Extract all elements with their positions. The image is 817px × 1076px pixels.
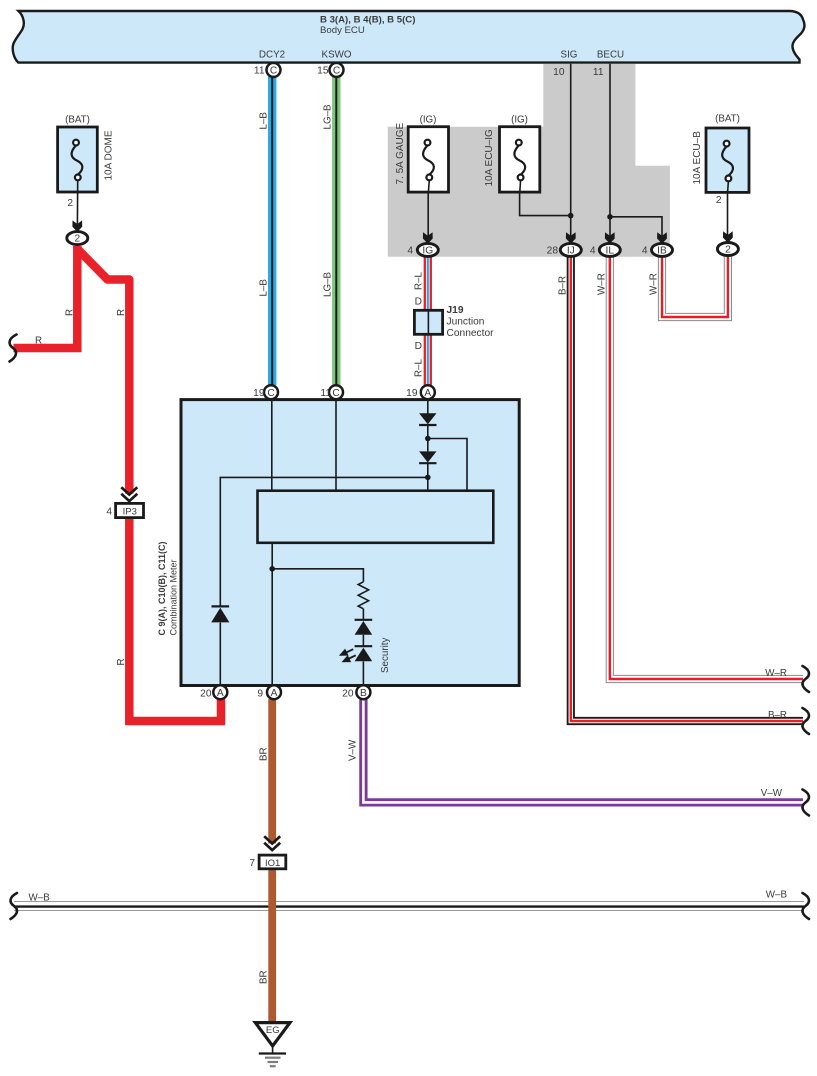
svg-text:IJ: IJ bbox=[567, 246, 575, 257]
svg-text:W–R: W–R bbox=[649, 273, 660, 295]
svg-text:20: 20 bbox=[200, 688, 212, 699]
svg-text:B 3(A), B 4(B), B 5(C): B 3(A), B 4(B), B 5(C) bbox=[320, 14, 415, 25]
svg-text:2: 2 bbox=[725, 245, 731, 256]
svg-text:2: 2 bbox=[74, 234, 80, 245]
svg-text:10A ECU–IG: 10A ECU–IG bbox=[484, 129, 495, 186]
svg-text:BR: BR bbox=[259, 970, 270, 984]
svg-text:(BAT): (BAT) bbox=[715, 114, 740, 125]
svg-text:IL: IL bbox=[606, 246, 615, 257]
svg-text:7. 5A GAUGE: 7. 5A GAUGE bbox=[395, 122, 406, 184]
svg-text:C: C bbox=[332, 388, 339, 399]
svg-text:BR: BR bbox=[259, 747, 270, 761]
svg-text:L–B: L–B bbox=[259, 112, 270, 130]
svg-text:Junction: Junction bbox=[447, 317, 485, 328]
svg-text:Body ECU: Body ECU bbox=[320, 25, 365, 36]
svg-text:10A DOME: 10A DOME bbox=[104, 130, 115, 180]
svg-text:C: C bbox=[267, 388, 274, 399]
svg-text:4: 4 bbox=[642, 246, 648, 257]
svg-text:A: A bbox=[217, 688, 224, 699]
svg-text:15: 15 bbox=[317, 66, 329, 77]
svg-text:4: 4 bbox=[106, 506, 112, 517]
svg-text:EG: EG bbox=[266, 1025, 280, 1036]
svg-text:10A ECU–B: 10A ECU–B bbox=[692, 131, 703, 185]
svg-text:D: D bbox=[415, 297, 422, 308]
svg-text:C: C bbox=[333, 66, 340, 77]
svg-text:2: 2 bbox=[67, 198, 73, 209]
svg-text:SIG: SIG bbox=[561, 50, 578, 61]
svg-text:2: 2 bbox=[716, 195, 722, 206]
svg-text:(IG): (IG) bbox=[511, 115, 528, 126]
svg-text:R: R bbox=[116, 658, 127, 665]
svg-text:11: 11 bbox=[254, 66, 265, 77]
svg-text:19: 19 bbox=[253, 388, 265, 399]
svg-text:IG: IG bbox=[422, 246, 433, 257]
svg-text:(BAT): (BAT) bbox=[65, 115, 90, 126]
svg-text:R–L: R–L bbox=[414, 271, 425, 290]
svg-text:20: 20 bbox=[342, 688, 354, 699]
svg-text:Combination Meter: Combination Meter bbox=[169, 559, 179, 635]
svg-text:11: 11 bbox=[320, 388, 331, 399]
svg-text:R: R bbox=[35, 336, 42, 347]
svg-text:V–W: V–W bbox=[348, 739, 359, 761]
svg-text:4: 4 bbox=[590, 246, 596, 257]
svg-text:A: A bbox=[271, 688, 278, 699]
svg-text:A: A bbox=[424, 388, 431, 399]
svg-text:B–R: B–R bbox=[558, 276, 569, 295]
svg-text:B–R: B–R bbox=[768, 710, 787, 721]
svg-text:R: R bbox=[116, 309, 127, 316]
svg-text:LG–B: LG–B bbox=[323, 104, 334, 130]
svg-text:B: B bbox=[360, 688, 367, 699]
svg-text:W–R: W–R bbox=[765, 668, 787, 679]
svg-text:9: 9 bbox=[257, 688, 263, 699]
svg-text:C: C bbox=[270, 66, 277, 77]
svg-text:IO1: IO1 bbox=[265, 858, 280, 869]
svg-text:19: 19 bbox=[406, 388, 418, 399]
svg-text:W–B: W–B bbox=[29, 893, 51, 904]
svg-text:R–L: R–L bbox=[414, 358, 425, 377]
svg-text:Security: Security bbox=[380, 638, 391, 673]
svg-text:L–B: L–B bbox=[259, 279, 270, 297]
svg-text:10: 10 bbox=[553, 67, 565, 78]
svg-text:R: R bbox=[65, 309, 76, 316]
svg-text:IP3: IP3 bbox=[123, 506, 137, 517]
svg-text:DCY2: DCY2 bbox=[259, 50, 285, 61]
svg-text:4: 4 bbox=[407, 246, 413, 257]
svg-text:Connector: Connector bbox=[447, 328, 495, 339]
svg-text:IB: IB bbox=[657, 246, 667, 257]
svg-text:W–B: W–B bbox=[766, 890, 788, 901]
svg-text:V–W: V–W bbox=[761, 788, 783, 799]
svg-text:11: 11 bbox=[593, 67, 604, 78]
svg-text:J19: J19 bbox=[447, 305, 464, 316]
svg-text:7: 7 bbox=[249, 858, 255, 869]
svg-text:LG–B: LG–B bbox=[323, 271, 334, 297]
svg-text:W–R: W–R bbox=[597, 273, 608, 295]
svg-text:(IG): (IG) bbox=[420, 115, 437, 126]
svg-text:C 9(A), C10(B), C11(C): C 9(A), C10(B), C11(C) bbox=[157, 541, 167, 635]
svg-text:28: 28 bbox=[547, 246, 559, 257]
svg-text:BECU: BECU bbox=[597, 50, 624, 61]
svg-text:KSWO: KSWO bbox=[322, 50, 352, 61]
svg-text:D: D bbox=[415, 341, 422, 352]
